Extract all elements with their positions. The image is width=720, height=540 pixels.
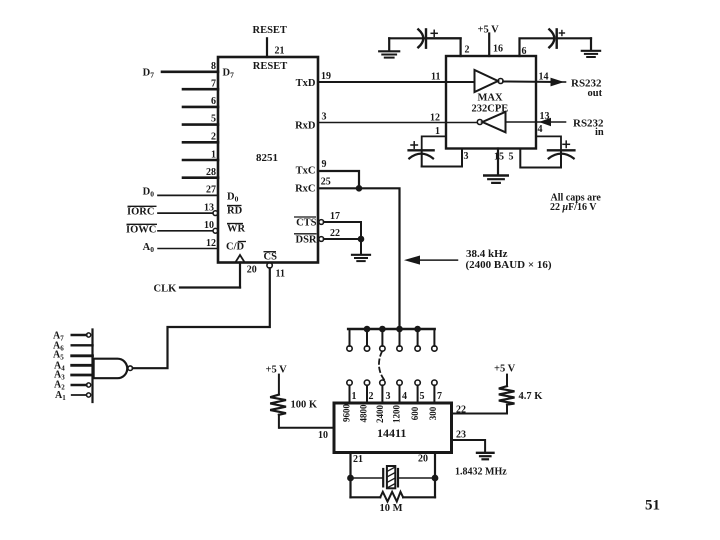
svg-text:5: 5 [509,152,514,163]
svg-text:out: out [588,88,603,99]
svg-text:21: 21 [275,46,285,57]
svg-text:12: 12 [430,113,440,124]
svg-text:3: 3 [322,112,327,123]
svg-text:7: 7 [437,391,442,402]
svg-text:in: in [595,127,604,138]
svg-text:1200: 1200 [392,405,402,424]
svg-text:RD: RD [227,206,243,217]
svg-text:+5 V: +5 V [494,364,516,375]
svg-text:11: 11 [431,72,440,83]
svg-text:22: 22 [330,228,340,239]
svg-text:3: 3 [386,391,391,402]
svg-text:28: 28 [206,167,216,178]
svg-text:5: 5 [420,391,425,402]
svg-text:10 M: 10 M [380,503,403,514]
svg-text:15: 15 [494,152,504,163]
svg-text:(2400 BAUD × 16): (2400 BAUD × 16) [466,259,552,271]
svg-text:DSR: DSR [295,235,316,246]
svg-text:19: 19 [321,71,331,82]
svg-text:300: 300 [428,406,438,420]
svg-text:16: 16 [493,44,503,55]
svg-text:TxD: TxD [296,78,316,89]
svg-text:3: 3 [464,151,469,162]
svg-text:6: 6 [211,96,216,107]
svg-text:D0: D0 [227,192,239,204]
svg-text:WR: WR [227,224,246,235]
svg-text:8: 8 [211,61,216,72]
svg-text:+5 V: +5 V [266,365,288,376]
svg-text:13: 13 [540,111,550,122]
svg-text:TxC: TxC [296,166,316,177]
svg-text:22 μF/16 V: 22 μF/16 V [550,202,597,213]
svg-text:MAX: MAX [478,93,503,104]
svg-text:12: 12 [206,238,216,249]
svg-text:4: 4 [538,124,543,135]
svg-text:4800: 4800 [359,404,369,423]
svg-text:10: 10 [318,430,328,441]
svg-text:22: 22 [456,405,466,416]
svg-text:1: 1 [352,391,357,402]
svg-text:10: 10 [204,220,214,231]
svg-text:13: 13 [204,203,214,214]
svg-text:IOWC: IOWC [126,225,156,236]
svg-text:1: 1 [435,126,440,137]
svg-text:CS: CS [264,252,278,263]
svg-text:RESET: RESET [253,61,287,72]
svg-text:1: 1 [211,150,216,161]
svg-text:21: 21 [353,454,363,465]
svg-text:5: 5 [211,114,216,125]
svg-text:2400: 2400 [375,405,385,424]
svg-text:9600: 9600 [342,404,352,423]
svg-text:RxC: RxC [295,184,315,195]
svg-text:232CPE: 232CPE [472,104,509,115]
svg-text:CLK: CLK [154,284,178,295]
svg-text:RxD: RxD [295,120,316,131]
svg-text:D7: D7 [143,68,155,80]
svg-text:2: 2 [465,45,470,56]
svg-text:14: 14 [539,72,549,83]
svg-text:A1: A1 [55,390,66,402]
svg-text:1.8432 MHz: 1.8432 MHz [455,467,507,478]
svg-text:6: 6 [522,46,527,57]
svg-text:27: 27 [206,185,216,196]
svg-text:14411: 14411 [377,426,406,440]
svg-text:D0: D0 [143,187,155,199]
svg-text:600: 600 [410,406,420,420]
svg-text:A0: A0 [143,242,155,254]
svg-text:RESET: RESET [253,25,287,36]
svg-text:2: 2 [369,391,374,402]
svg-text:17: 17 [330,211,340,222]
svg-text:+5 V: +5 V [478,25,500,36]
svg-text:2: 2 [211,132,216,143]
svg-text:20: 20 [247,265,257,276]
svg-text:7: 7 [211,79,216,90]
svg-text:23: 23 [456,430,466,441]
svg-text:8251: 8251 [256,152,278,164]
svg-text:4: 4 [402,391,407,402]
svg-text:9: 9 [322,159,327,170]
svg-text:11: 11 [276,269,285,280]
svg-text:100 K: 100 K [291,400,318,411]
svg-text:C/D: C/D [226,242,245,253]
svg-text:25: 25 [321,177,331,188]
svg-text:51: 51 [645,498,660,514]
svg-text:IORC: IORC [127,207,154,218]
svg-text:D7: D7 [223,68,235,80]
svg-text:CTS: CTS [296,218,317,229]
svg-text:4.7 K: 4.7 K [519,391,544,402]
svg-text:20: 20 [418,454,428,465]
